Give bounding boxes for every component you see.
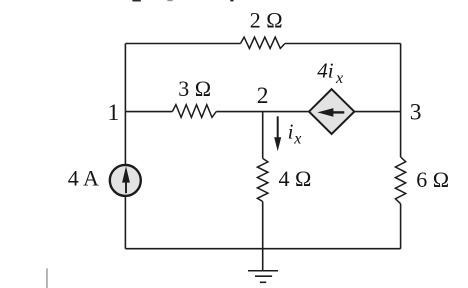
svg-text:4 Ω: 4 Ω (279, 166, 312, 191)
resistor 3 ohm (middle branch) (172, 105, 216, 118)
wire ground stem (bottom wire down to ground) (262, 249, 264, 271)
dependent current source 4ix (diamond) (309, 89, 354, 134)
stray text remnant (cut-off line above, mark 2) (167, 0, 172, 1)
wire left (top corner down to current source) (124, 44, 126, 165)
resistor 4 ohm (center branch) (257, 158, 268, 201)
svg-text:4ix: 4ix (317, 59, 343, 87)
wire top (node1 side to 2-ohm resistor) (125, 43, 240, 45)
wire right (top corner down to 6-ohm resistor) (400, 44, 402, 158)
svg-text:1: 1 (108, 100, 120, 126)
wire middle (3-ohm resistor to dependent source) (216, 111, 310, 113)
svg-text:3 Ω: 3 Ω (178, 76, 211, 101)
svg-text:3: 3 (410, 100, 422, 126)
svg-text:ix: ix (288, 119, 302, 147)
resistor 2 ohm (top branch) (241, 37, 285, 48)
resistor 6 ohm (right branch) (395, 157, 405, 204)
wire left (current source down to bottom corner) (124, 196, 126, 249)
wire bottom (left corner to right corner) (125, 248, 400, 250)
wire middle (dependent source to node 3) (354, 111, 401, 113)
dependent source arrow (pointing left) (317, 108, 344, 117)
svg-text:4 A: 4 A (68, 165, 99, 190)
wire node2 branch (4-ohm resistor to bottom wire) (262, 202, 264, 249)
wire middle (node 1 to 3-ohm resistor) (125, 111, 172, 113)
ground symbol (248, 271, 278, 283)
stray vertical rule (bottom-left page edge) (46, 268, 47, 288)
stray text remnant (cut-off line above, mark 1) (132, 0, 140, 2)
current source 4A (circle) (110, 165, 141, 196)
svg-text:6 Ω: 6 Ω (416, 167, 449, 192)
wire top (2-ohm resistor to node3 corner) (285, 43, 401, 45)
current arrow ix (downward at node 2) (274, 116, 281, 151)
svg-text:2 Ω: 2 Ω (250, 8, 283, 33)
svg-text:2: 2 (257, 83, 269, 109)
wire right (6-ohm resistor to bottom corner) (400, 204, 402, 249)
wire node2 branch (node 2 down to 4-ohm resistor) (262, 112, 264, 159)
current source 4A arrow (pointing up) (122, 166, 130, 193)
stray text remnant (cut-off line above, mark 3) (230, 0, 233, 1)
